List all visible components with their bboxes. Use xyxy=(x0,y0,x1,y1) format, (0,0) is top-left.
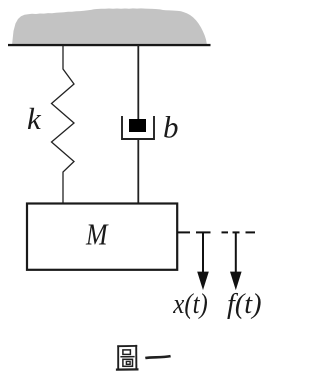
svg-text:k: k xyxy=(27,101,42,136)
svg-text:M: M xyxy=(85,217,109,252)
svg-text:x(t): x(t) xyxy=(172,289,207,320)
svg-text:b: b xyxy=(163,110,179,145)
svg-text:f(t): f(t) xyxy=(227,289,262,320)
